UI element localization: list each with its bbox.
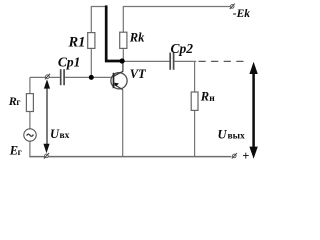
svg-text:+: + — [242, 149, 249, 163]
svg-text:г: г — [18, 147, 22, 157]
svg-text:R1: R1 — [68, 35, 86, 51]
svg-text:н: н — [209, 94, 215, 104]
svg-text:VT: VT — [130, 67, 147, 81]
svg-text:вых: вых — [228, 131, 246, 141]
svg-text:R: R — [200, 90, 209, 104]
svg-text:U: U — [218, 127, 228, 141]
svg-text:-Ek: -Ek — [233, 8, 251, 20]
svg-text:Cp1: Cp1 — [58, 55, 81, 70]
svg-text:U: U — [50, 127, 60, 141]
svg-text:вх: вх — [60, 131, 70, 141]
svg-text:Cp2: Cp2 — [171, 41, 194, 56]
svg-text:г: г — [16, 97, 20, 107]
svg-text:Rk: Rk — [129, 31, 145, 45]
